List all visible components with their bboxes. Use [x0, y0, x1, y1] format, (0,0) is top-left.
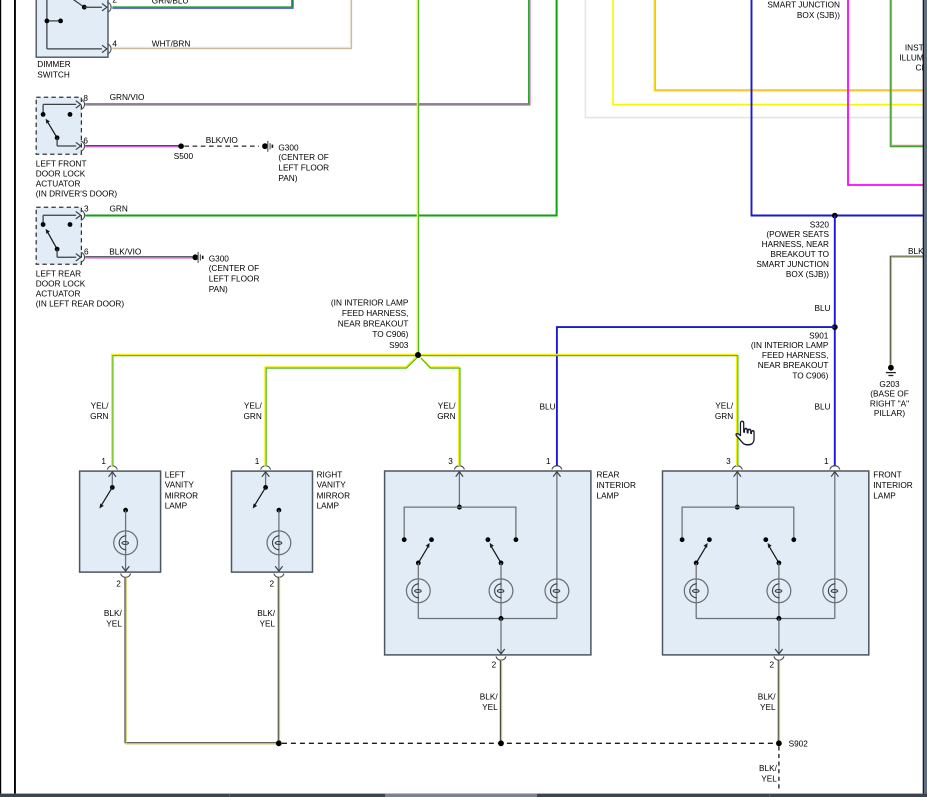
svg-text:(IN INTERIOR LAMP: (IN INTERIOR LAMP: [751, 341, 829, 350]
svg-text:INTERIOR: INTERIOR: [597, 481, 636, 490]
svg-text:VANITY: VANITY: [165, 481, 195, 490]
svg-text:3: 3: [448, 457, 453, 466]
svg-text:S500: S500: [174, 152, 194, 161]
svg-text:VANITY: VANITY: [317, 481, 347, 490]
svg-text:DOOR LOCK: DOOR LOCK: [36, 280, 86, 289]
svg-text:BLK/: BLK/: [104, 609, 123, 618]
svg-text:RIGHT "A": RIGHT "A": [870, 399, 909, 408]
svg-text:G203: G203: [879, 380, 900, 389]
svg-text:TO C906): TO C906): [372, 330, 408, 339]
svg-text:BOX (SJB)): BOX (SJB)): [797, 11, 840, 20]
svg-text:BLK/VIO: BLK/VIO: [109, 248, 142, 257]
svg-text:REAR: REAR: [597, 471, 620, 480]
svg-text:BLK/: BLK/: [257, 609, 276, 618]
svg-text:2: 2: [492, 661, 497, 670]
svg-text:6: 6: [84, 248, 89, 257]
svg-text:BLK: BLK: [908, 247, 924, 256]
svg-text:PAN): PAN): [278, 174, 297, 183]
svg-text:ILLUM: ILLUM: [899, 54, 923, 63]
svg-text:SWITCH: SWITCH: [37, 70, 70, 79]
svg-text:GRN: GRN: [243, 412, 261, 421]
svg-text:YEL: YEL: [760, 703, 776, 712]
svg-text:(CENTER OF: (CENTER OF: [278, 153, 328, 162]
svg-text:6: 6: [83, 136, 88, 145]
svg-text:FRONT: FRONT: [873, 471, 901, 480]
svg-text:LEFT FLOOR: LEFT FLOOR: [209, 275, 260, 284]
svg-text:1: 1: [546, 457, 551, 466]
svg-text:YEL/: YEL/: [244, 402, 263, 411]
svg-text:YEL: YEL: [106, 620, 122, 629]
svg-text:(POWER SEATS: (POWER SEATS: [766, 230, 829, 239]
svg-text:ACTUATOR: ACTUATOR: [36, 290, 81, 299]
svg-text:BLK/VIO: BLK/VIO: [206, 136, 239, 145]
svg-text:YEL/: YEL/: [91, 402, 110, 411]
svg-text:LAMP: LAMP: [873, 491, 896, 500]
svg-text:GRN: GRN: [90, 412, 108, 421]
svg-text:BREAKOUT TO: BREAKOUT TO: [770, 250, 829, 259]
svg-text:PILLAR): PILLAR): [874, 409, 905, 418]
svg-text:TO C906): TO C906): [792, 371, 828, 380]
svg-text:BLU: BLU: [815, 304, 831, 313]
svg-text:1: 1: [101, 457, 106, 466]
svg-text:MIRROR: MIRROR: [317, 491, 350, 500]
svg-text:2: 2: [770, 661, 775, 670]
svg-text:LEFT REAR: LEFT REAR: [36, 270, 81, 279]
svg-text:FEED HARNESS,: FEED HARNESS,: [342, 309, 408, 318]
svg-text:CI: CI: [915, 64, 923, 73]
svg-text:NEAR BREAKOUT: NEAR BREAKOUT: [338, 320, 409, 329]
svg-text:1: 1: [255, 457, 260, 466]
svg-text:(IN DRIVER'S DOOR): (IN DRIVER'S DOOR): [36, 189, 118, 198]
svg-text:S320: S320: [810, 220, 830, 229]
svg-text:2: 2: [116, 579, 121, 588]
svg-text:(BASE OF: (BASE OF: [870, 390, 909, 399]
svg-text:INTERIOR: INTERIOR: [873, 481, 912, 490]
svg-text:YEL/: YEL/: [715, 402, 734, 411]
svg-text:LAMP: LAMP: [597, 491, 620, 500]
svg-text:LAMP: LAMP: [317, 502, 340, 511]
svg-text:S902: S902: [789, 740, 809, 749]
svg-text:ACTUATOR: ACTUATOR: [36, 180, 81, 189]
svg-text:BLK/: BLK/: [758, 693, 777, 702]
svg-text:RIGHT: RIGHT: [317, 471, 343, 480]
svg-text:YEL/: YEL/: [438, 402, 457, 411]
svg-text:G300: G300: [209, 255, 230, 264]
svg-text:PAN): PAN): [209, 285, 228, 294]
svg-text:HARNESS, NEAR: HARNESS, NEAR: [762, 240, 829, 249]
svg-text:DOOR LOCK: DOOR LOCK: [36, 170, 86, 179]
svg-text:8: 8: [83, 94, 88, 103]
svg-text:S903: S903: [389, 341, 409, 350]
svg-text:LAMP: LAMP: [165, 502, 188, 511]
svg-text:(CENTER OF: (CENTER OF: [209, 264, 259, 273]
svg-text:YEL: YEL: [260, 620, 276, 629]
svg-text:(IN LEFT REAR DOOR): (IN LEFT REAR DOOR): [36, 299, 125, 308]
svg-text:S901: S901: [809, 332, 829, 341]
svg-text:INST: INST: [905, 43, 924, 52]
svg-text:3: 3: [84, 205, 89, 214]
svg-text:BLK/: BLK/: [759, 764, 778, 773]
svg-text:YEL: YEL: [761, 774, 777, 783]
svg-text:BOX (SJB)): BOX (SJB)): [786, 270, 829, 279]
svg-text:SMART JUNCTION: SMART JUNCTION: [756, 260, 829, 269]
svg-text:WHT/BRN: WHT/BRN: [152, 39, 191, 48]
svg-text:BLK/: BLK/: [480, 693, 499, 702]
svg-text:GRN/VIO: GRN/VIO: [110, 93, 145, 102]
svg-text:BLU: BLU: [815, 403, 831, 412]
svg-text:LEFT: LEFT: [165, 471, 185, 480]
svg-text:(IN INTERIOR LAMP: (IN INTERIOR LAMP: [331, 298, 409, 307]
svg-text:3: 3: [726, 457, 731, 466]
svg-text:1: 1: [824, 457, 829, 466]
svg-text:NEAR BREAKOUT: NEAR BREAKOUT: [758, 361, 829, 370]
svg-text:GRN: GRN: [437, 412, 455, 421]
svg-text:G300: G300: [278, 144, 299, 153]
svg-text:YEL: YEL: [482, 703, 498, 712]
svg-text:SMART JUNCTION: SMART JUNCTION: [767, 1, 840, 10]
svg-text:BLU: BLU: [540, 403, 556, 412]
svg-text:GRN: GRN: [715, 412, 733, 421]
svg-text:GRN/BLU: GRN/BLU: [152, 0, 189, 5]
svg-text:MIRROR: MIRROR: [165, 491, 198, 500]
svg-text:LEFT FLOOR: LEFT FLOOR: [278, 164, 329, 173]
svg-text:DIMMER: DIMMER: [37, 60, 70, 69]
svg-text:LEFT FRONT: LEFT FRONT: [36, 160, 87, 169]
svg-text:GRN: GRN: [110, 205, 128, 214]
svg-text:2: 2: [112, 0, 117, 5]
svg-text:FEED HARNESS,: FEED HARNESS,: [762, 351, 828, 360]
svg-text:2: 2: [270, 579, 275, 588]
